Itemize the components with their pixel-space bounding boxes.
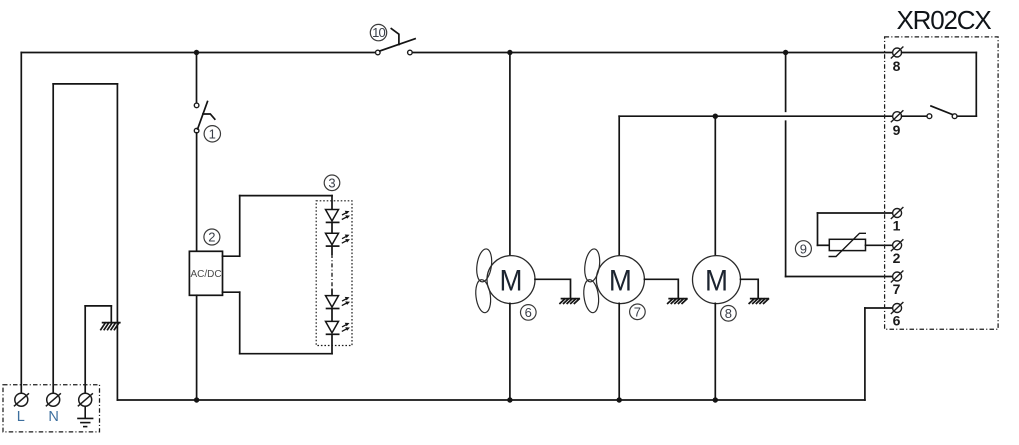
terminal PE bbox=[78, 393, 93, 406]
svg-text:10: 10 bbox=[372, 25, 385, 40]
wire: L terminal riser bbox=[20, 53, 22, 394]
wire: DC- drop bbox=[239, 292, 241, 354]
wire: switch S1 feed from top line bbox=[196, 53, 198, 104]
wire: motor M6 to bottom bus bbox=[509, 303, 511, 400]
node: junction motor M7 on bottom bus bbox=[617, 397, 622, 402]
ground: motor M7 chassis earth bbox=[668, 299, 687, 304]
wire: motor M8 earth lead bbox=[741, 279, 759, 298]
node: junction motor M6 on bottom bus bbox=[507, 397, 512, 402]
svg-text:M: M bbox=[500, 265, 523, 298]
wire: motor M8 to bottom bus bbox=[714, 303, 716, 400]
wire: terminal 1 horizontal bbox=[818, 212, 893, 214]
wire: DC+ riser bbox=[239, 196, 241, 257]
ground: motor M6 chassis earth bbox=[560, 299, 579, 304]
wire: LED strip anode drop bbox=[331, 196, 333, 210]
svg-text:6: 6 bbox=[893, 313, 901, 329]
wire: relay contact lead left (from terminal 9) bbox=[902, 115, 927, 117]
terminal L bbox=[14, 393, 29, 406]
wire: probe left lead bbox=[818, 244, 830, 246]
wire: DC+ out of AC/DC bbox=[223, 255, 240, 257]
XR02CX controller dash-dot enclosure bbox=[885, 37, 999, 329]
node: junction motor M8 on bottom bus bbox=[713, 397, 718, 402]
svg-text:6: 6 bbox=[525, 305, 532, 320]
LED D4 bbox=[326, 321, 351, 334]
wire: LED D3-D4 link bbox=[331, 309, 333, 322]
switch 1 (door switch) contacts and blade bbox=[194, 102, 215, 133]
wire: probe loop drop bbox=[817, 213, 819, 245]
wire: motor M7 earth lead bbox=[644, 279, 678, 298]
svg-text:9: 9 bbox=[893, 122, 901, 138]
motor M7 bbox=[596, 256, 644, 304]
node: junction motor M8 on terminal 9 run bbox=[713, 114, 718, 119]
wire: terminal 7 drop upper part (hops over terminal 9 run) bbox=[785, 53, 787, 112]
wire: motor M7 feed bbox=[618, 116, 620, 256]
label circle 8 bbox=[721, 306, 737, 322]
wire: relay contact 8 to right rail bbox=[902, 52, 977, 54]
wire: relay contact lead right bbox=[957, 115, 976, 117]
fan blades of M6 bbox=[474, 248, 494, 314]
wire: bottom neutral bus bbox=[117, 399, 865, 401]
svg-text:7: 7 bbox=[893, 281, 901, 297]
wire: PE routing horizontal bbox=[85, 305, 111, 307]
svg-text:8: 8 bbox=[893, 58, 901, 74]
ground: PE chassis earth symbol bbox=[101, 323, 120, 330]
wire: DC- out of AC/DC bbox=[223, 291, 240, 293]
thermistor probe 9 (NTC) bbox=[829, 233, 867, 256]
wire: probe right lead to terminal 2 bbox=[866, 244, 893, 246]
motor M6 bbox=[487, 256, 535, 304]
wire: DC- horizontal to LED strip bbox=[240, 353, 332, 355]
wire: terminal 9 run to motors bbox=[619, 115, 892, 117]
wire: terminal 7 horizontal bbox=[786, 276, 893, 278]
wire: LED strip cathode riser bbox=[331, 334, 333, 353]
wire: LED strip continuation (dash-dot) bbox=[331, 254, 333, 290]
svg-text:7: 7 bbox=[634, 305, 641, 320]
wire: AC/DC output to bottom bus bbox=[196, 295, 198, 400]
wire: LED D3 head bbox=[331, 290, 333, 296]
label circle 1 bbox=[204, 126, 220, 142]
svg-text:N: N bbox=[48, 409, 58, 425]
wire: PE drop to chassis earth bbox=[110, 306, 112, 323]
terminal 1 of XR02CX bbox=[891, 207, 904, 219]
terminal 7 of XR02CX bbox=[891, 271, 904, 283]
label circle 6 bbox=[521, 305, 537, 321]
wire: N routing drop to bottom bus bbox=[116, 84, 118, 400]
svg-text:8: 8 bbox=[725, 306, 732, 321]
ground: motor M8 chassis earth bbox=[749, 299, 768, 304]
wire: motor M6 earth lead bbox=[535, 279, 571, 298]
relay contact 8-9 inside XR02CX bbox=[927, 106, 957, 119]
label circle 9 bbox=[795, 241, 811, 257]
terminal N bbox=[46, 393, 61, 406]
svg-text:M: M bbox=[705, 265, 728, 298]
svg-text:3: 3 bbox=[328, 176, 335, 191]
wire: terminal 6 drop to bottom bus bbox=[864, 308, 866, 400]
wire: switch S1 to AC/DC input bbox=[196, 133, 198, 252]
terminal 9 of XR02CX bbox=[891, 110, 904, 122]
fan blades of M7 bbox=[582, 248, 602, 314]
motor M8 bbox=[693, 256, 741, 304]
label circle 10 bbox=[370, 24, 386, 40]
wire: LED D1-D2 link bbox=[331, 222, 333, 233]
terminal 8 of XR02CX bbox=[891, 47, 904, 59]
wire: N terminal riser bbox=[52, 84, 54, 394]
wire: terminal 7 drop lower part bbox=[785, 121, 787, 276]
terminal 6 of XR02CX bbox=[891, 302, 904, 314]
svg-text:2: 2 bbox=[208, 230, 215, 245]
wire: motor M7 to bottom bus bbox=[618, 303, 620, 400]
LED D1 bbox=[326, 210, 351, 223]
svg-text:M: M bbox=[609, 265, 632, 298]
svg-text:9: 9 bbox=[800, 241, 807, 256]
LED D2 bbox=[326, 233, 351, 246]
node: junction motor M6 on top line bbox=[507, 50, 512, 55]
AC/DC power supply U2 bbox=[189, 251, 222, 295]
wire: motor M8 feed bbox=[714, 116, 716, 256]
LED strip dotted enclosure bbox=[316, 201, 352, 346]
wire: relay right rail bbox=[975, 53, 977, 117]
label circle 7 bbox=[630, 304, 646, 320]
svg-text:XR02CX: XR02CX bbox=[897, 5, 992, 35]
svg-text:2: 2 bbox=[893, 250, 901, 266]
ground: PE earth symbol (3 bars) bbox=[77, 406, 93, 426]
wire: LED D2 tail bbox=[331, 246, 333, 254]
switch 10 (main switch) contacts, blade and actuator bbox=[376, 29, 416, 55]
wire: motor M6 feed bbox=[509, 53, 511, 256]
wire: N routing horizontal bbox=[53, 83, 117, 85]
node: junction terminal 7 branch on top line bbox=[783, 50, 788, 55]
node: junction on top line at switch S1 branch bbox=[194, 50, 199, 55]
wire: terminal 6 horizontal bbox=[865, 307, 893, 309]
wire: DC+ horizontal to LED strip bbox=[240, 195, 332, 197]
wire: PE terminal riser bbox=[84, 306, 86, 394]
node: junction AC/DC on bottom bus bbox=[194, 397, 199, 402]
terminal 2 of XR02CX bbox=[891, 239, 904, 251]
svg-text:L: L bbox=[17, 409, 25, 425]
svg-text:1: 1 bbox=[209, 127, 216, 142]
label circle 2 bbox=[204, 229, 220, 245]
LED D3 bbox=[326, 296, 351, 309]
supply terminal block dash-dot enclosure bbox=[3, 385, 100, 432]
svg-text:AC/DC: AC/DC bbox=[190, 269, 221, 280]
wire: top supply line L, right segment after switch 10 bbox=[412, 52, 892, 54]
svg-text:1: 1 bbox=[893, 218, 901, 234]
label circle 3 bbox=[324, 175, 340, 191]
wire: top supply line L, left segment bbox=[21, 52, 375, 54]
